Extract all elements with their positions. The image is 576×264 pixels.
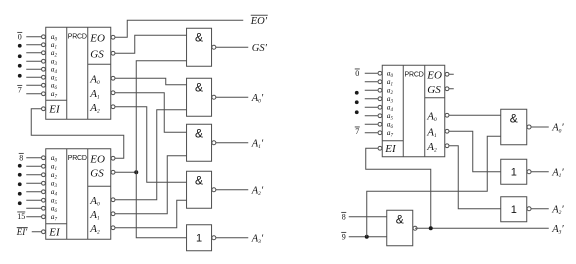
svg-text:1: 1 [511, 167, 517, 179]
wire U1.EO to EO-bar-prime output [115, 20, 243, 37]
svg-text:7: 7 [355, 127, 359, 136]
svg-text:A3′: A3′ [551, 224, 564, 236]
gate G3 (NAND A1) output bubble [212, 141, 216, 145]
svg-text:GS′: GS′ [252, 43, 268, 54]
gate G6 (NAND A0) output bubble [527, 125, 531, 129]
wire G9 output (A3-prime line) [415, 227, 549, 229]
svg-text:8: 8 [342, 213, 346, 222]
wire U1.GS to G1 input [115, 35, 187, 53]
wire junction to G5 input [136, 172, 186, 238]
svg-text:EI: EI [48, 103, 61, 115]
svg-text:A0′: A0′ [551, 122, 564, 134]
junction G9 output to EI feedback [429, 226, 433, 230]
wire input 10 to U2 [26, 174, 41, 176]
wire U1.A2 to G4 input [115, 107, 187, 183]
wire U2.A1 to G3 input [115, 156, 187, 214]
wire input 4 to U1 [26, 68, 41, 70]
gate G2 (NAND A0) body [187, 78, 212, 116]
wire input 0 to U3 [365, 72, 378, 74]
svg-text:A2′: A2′ [551, 204, 564, 216]
wire input 6 to U1 [26, 84, 41, 86]
svg-text:1: 1 [511, 204, 517, 216]
gate G9 (NAND 8,9) body [387, 210, 413, 246]
svg-text:8: 8 [19, 154, 23, 163]
wire junction to G1 input [136, 61, 186, 173]
gate G6 (NAND A0) body [501, 109, 527, 145]
wire input 14 to U2 [26, 207, 41, 209]
svg-text:A3′: A3′ [251, 233, 264, 245]
svg-text:GS: GS [427, 84, 441, 96]
gate G3 (NAND A1) body [187, 124, 212, 161]
wire G7 output [531, 171, 549, 173]
svg-text:PRCD: PRCD [405, 71, 424, 78]
input ellipsis bullet [18, 54, 22, 58]
wire input 8 to U2 [26, 157, 41, 159]
svg-text:9: 9 [342, 233, 346, 242]
wire input 15 to U2 [26, 216, 41, 218]
gate G8 (buffer A2) body [501, 197, 527, 222]
wire G3 output [216, 142, 248, 144]
wire U3.A0 to G6 input [449, 114, 501, 116]
svg-text:1: 1 [196, 233, 202, 245]
svg-text:A0′: A0′ [251, 93, 264, 105]
wire G8 output [531, 208, 549, 210]
gate G1 (NAND GS) body [187, 28, 212, 66]
wire input 0 to U1 [26, 36, 41, 38]
gate G5 (buffer A3) body [187, 225, 212, 251]
svg-text:EI: EI [48, 226, 61, 238]
gate G8 (buffer A2) output bubble [527, 207, 531, 211]
gate G7 (buffer A1) body [501, 159, 527, 184]
wire U2.A2 to G4 input [115, 200, 187, 228]
wire G2 output [216, 96, 248, 98]
input ellipsis bullet [18, 182, 22, 186]
input ellipsis bullet [355, 110, 359, 114]
input ellipsis bullet [18, 201, 22, 205]
gate G9 (NAND 8,9) output bubble [413, 226, 417, 230]
wire U2.EO to U1.EI [31, 109, 124, 159]
wire input 1 to U3 [365, 81, 378, 83]
gate G4 (NAND A2) body [187, 171, 212, 208]
svg-text:EI: EI [384, 143, 397, 155]
priority encoder U2 outline [46, 149, 111, 240]
gate G4 (NAND A2) output bubble [212, 188, 216, 192]
svg-text:&: & [195, 126, 203, 140]
wire 9-bar branch to G6 input [367, 136, 501, 237]
svg-text:GS: GS [90, 167, 104, 179]
svg-text:PRCD: PRCD [68, 33, 87, 40]
gate G7 (buffer A1) output bubble [527, 170, 531, 174]
wire G9 output to U3.EI (feedback) [366, 148, 431, 228]
svg-text:&: & [195, 173, 203, 187]
wire U1.A1 to G3 input [115, 93, 187, 133]
input ellipsis bullet [355, 91, 359, 95]
input ellipsis bullet [18, 74, 22, 78]
svg-text:&: & [195, 30, 203, 44]
junction 9-bar branch [365, 235, 369, 239]
wire input 3 to U3 [365, 98, 378, 100]
svg-text:EO′: EO′ [250, 16, 268, 27]
priority encoder U1 outline [46, 27, 111, 119]
svg-text:&: & [510, 111, 518, 125]
wire input 1 to U1 [26, 44, 41, 46]
wire U2.GS to junction [115, 171, 136, 173]
svg-text:0: 0 [18, 33, 22, 42]
svg-text:15: 15 [17, 212, 25, 221]
gate G5 (buffer A3) output bubble [212, 236, 216, 240]
input ellipsis bullet [18, 64, 22, 68]
input ellipsis bullet [18, 173, 22, 177]
wire G6 output [531, 126, 549, 128]
priority encoder U3 outline [382, 65, 445, 157]
svg-text:A1′: A1′ [251, 138, 264, 150]
wire G5 output [216, 237, 248, 239]
wire G1 output [216, 46, 248, 48]
wire 8-bar to G9 input [349, 216, 387, 218]
svg-text:EI′: EI′ [16, 227, 28, 237]
wire input 7 to U1 [26, 93, 41, 95]
wire input 5 to U3 [365, 115, 378, 117]
svg-text:&: & [396, 212, 404, 226]
wire input 13 to U2 [26, 199, 41, 201]
wire input 2 to U1 [26, 52, 41, 54]
gate G1 (NAND GS) output bubble [212, 45, 216, 49]
svg-text:EO: EO [426, 69, 442, 81]
input ellipsis bullet [18, 44, 22, 48]
wire input 7 to U3 [365, 132, 378, 134]
wire input 11 to U2 [26, 182, 41, 184]
wire input 3 to U1 [26, 60, 41, 62]
junction U2.GS [134, 170, 138, 174]
wire input 5 to U1 [26, 76, 41, 78]
wire input 9 to U2 [26, 165, 41, 167]
wire input 4 to U3 [365, 106, 378, 108]
svg-text:&: & [195, 80, 203, 94]
wire input 6 to U3 [365, 123, 378, 125]
wire U3.A1 to G7 input [449, 131, 501, 172]
wire U2.A0 to G2 input [115, 110, 187, 200]
svg-text:EO: EO [89, 153, 105, 165]
wire G4 output [216, 189, 248, 191]
wire EI-bar-prime to U2.EI [32, 231, 42, 233]
input ellipsis bullet [355, 100, 359, 104]
gate G2 (NAND A0) output bubble [212, 95, 216, 99]
wire 9-bar to G9 input [349, 236, 387, 238]
svg-text:PRCD: PRCD [68, 155, 87, 162]
svg-text:A2′: A2′ [251, 185, 264, 197]
wire U3.GS stub [449, 88, 454, 90]
svg-text:EO: EO [89, 32, 105, 44]
svg-text:GS: GS [90, 48, 104, 60]
input ellipsis bullet [18, 192, 22, 196]
svg-text:0: 0 [355, 69, 359, 78]
svg-text:A1′: A1′ [551, 167, 564, 179]
input ellipsis bullet [18, 164, 22, 168]
svg-text:7: 7 [18, 86, 22, 95]
wire input 12 to U2 [26, 191, 41, 193]
wire U3.EO stub [449, 73, 454, 75]
wire input 2 to U3 [365, 89, 378, 91]
wire U1.A0 to G2 input [115, 78, 187, 85]
wire U3.A2 to G8 input [449, 146, 501, 209]
